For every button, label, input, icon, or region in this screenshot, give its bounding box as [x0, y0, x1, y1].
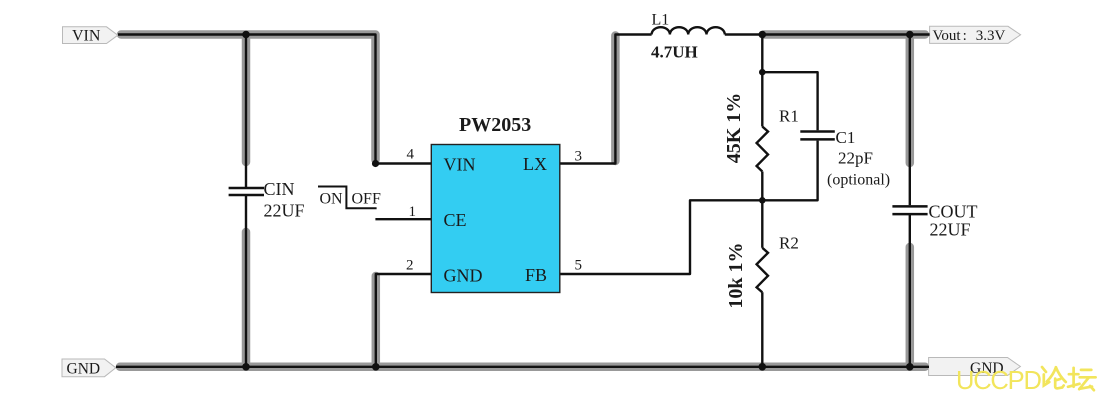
wire LX vertical highlight: [611, 36, 620, 162]
svg-text:OFF: OFF: [352, 191, 381, 208]
svg-text:10k 1%: 10k 1%: [725, 242, 747, 308]
svg-text:5: 5: [575, 258, 583, 274]
svg-text:CIN: CIN: [264, 179, 295, 199]
wire R2 bottom lead: [761, 292, 763, 367]
svg-text:CE: CE: [444, 210, 467, 230]
switch ON/OFF: [318, 187, 381, 209]
svg-text:VIN: VIN: [444, 155, 476, 175]
wire VIN rail highlight (gray): [121, 35, 376, 161]
net tag Vout 3.3V: [930, 26, 1021, 44]
wire CIN branch: [245, 35, 247, 367]
pin number 2: [406, 257, 414, 273]
svg-text:22pF: 22pF: [838, 149, 873, 168]
wire COUT bottom branch highlight: [906, 247, 915, 363]
capacitor CIN: [229, 179, 305, 221]
wire C1 loop bottom: [762, 141, 817, 201]
resistor R1: [723, 93, 799, 172]
wire CIN top branch highlight: [242, 38, 251, 162]
svg-text:GND: GND: [444, 266, 483, 286]
resistor R2: [725, 234, 799, 309]
watermark UCCPD logo text: [956, 367, 1041, 394]
svg-text:LX: LX: [523, 154, 547, 174]
wire GND rail (black): [116, 366, 929, 368]
svg-text:4: 4: [407, 147, 415, 163]
junction node GND/COUT: [906, 363, 914, 371]
wire CIN bottom branch highlight: [242, 232, 251, 363]
wire C1 loop top: [762, 72, 817, 130]
capacitor COUT: [892, 202, 977, 240]
svg-text:COUT: COUT: [929, 202, 978, 222]
svg-text:L1: L1: [652, 12, 670, 29]
junction node GND/pin2: [372, 363, 380, 371]
pin number 1: [409, 204, 417, 220]
wire inductor to Vout tag: [725, 33, 930, 35]
junction node Vout/COUT: [906, 31, 914, 39]
svg-text:1: 1: [409, 204, 417, 220]
svg-text:FB: FB: [525, 265, 547, 285]
junction node VIN/CIN: [242, 31, 250, 39]
wire R1 bottom lead: [761, 172, 763, 201]
svg-text:PW2053: PW2053: [459, 114, 531, 136]
watermark CJK glyph tan: [1068, 368, 1096, 390]
wire LX to inductor: [560, 35, 652, 164]
svg-text:ON: ON: [320, 191, 344, 208]
svg-text:22UF: 22UF: [264, 201, 305, 221]
wire GND rail highlight: [120, 363, 925, 372]
svg-text:UCCPD: UCCPD: [956, 367, 1041, 394]
capacitor C1: [800, 128, 890, 189]
net tag GND (bottom right): [929, 358, 1021, 377]
wire pin4 to IC: [376, 162, 432, 164]
svg-text:4.7UH: 4.7UH: [651, 43, 698, 62]
svg-text:45K 1%: 45K 1%: [723, 93, 745, 164]
junction node GND/CIN: [242, 363, 250, 371]
junction node R1/C1 top: [759, 69, 766, 76]
wire R2 top lead: [761, 200, 763, 248]
junction node Vout/R1: [759, 31, 767, 39]
wire COUT top branch highlight: [906, 37, 915, 163]
junction node GND/R2: [759, 363, 767, 371]
svg-text:R1: R1: [779, 107, 799, 126]
pin number 3: [575, 148, 583, 164]
svg-text:R2: R2: [779, 234, 799, 253]
svg-text:3: 3: [575, 148, 583, 164]
wire Vout vertical to COUT: [909, 35, 911, 367]
wire FB pin: [560, 200, 763, 274]
inductor L1: [651, 12, 725, 62]
svg-text:(optional): (optional): [827, 172, 890, 189]
watermark CJK glyph lun: [1042, 367, 1066, 388]
svg-text:GND: GND: [67, 361, 101, 378]
pin number 4: [407, 147, 415, 163]
wire Vout rail highlight: [764, 30, 925, 39]
junction node pin4 corner: [372, 160, 379, 167]
wire CE pin: [375, 218, 431, 220]
svg-text:2: 2: [406, 257, 414, 273]
wire VIN rail (black): [118, 35, 376, 164]
svg-text:22UF: 22UF: [930, 220, 971, 240]
net tag GND (bottom left): [62, 359, 116, 378]
svg-text:C1: C1: [836, 128, 856, 147]
wire GND pin vertical highlight: [372, 276, 381, 363]
op-amp U1 PW2053 IC body: [431, 114, 560, 293]
wire GND pin: [376, 274, 432, 367]
svg-text:VIN: VIN: [72, 28, 101, 45]
wire feedback divider vertical top lead: [761, 35, 763, 127]
pin number 5: [575, 258, 583, 274]
net tag VIN: [63, 27, 118, 45]
junction node FB/R1/R2: [759, 197, 766, 204]
